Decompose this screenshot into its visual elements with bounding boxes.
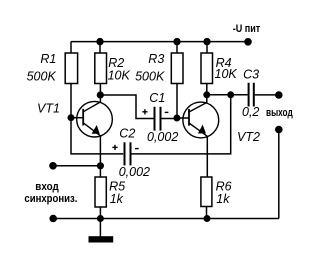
C1 minus sign: [165, 111, 169, 113]
svg-text:1k: 1k: [110, 192, 124, 206]
wire R2 bottom lead: [99, 84, 101, 96]
svg-text:C1: C1: [149, 91, 165, 105]
node: sync input top terminal: [49, 162, 57, 170]
svg-text:синхрониз.: синхрониз.: [24, 193, 77, 205]
wire R3 top lead: [176, 42, 178, 53]
C2 plus sign: [112, 145, 117, 150]
wire VT1 emitter lead: [99, 136, 101, 166]
wire VT1 collector to C1 left: [100, 95, 153, 119]
wire ground stub: [99, 219, 101, 237]
wire VT2 emitter lead: [206, 136, 208, 177]
C1 plus sign: [142, 109, 147, 114]
resistor R6: [201, 177, 212, 207]
svg-text:0,002: 0,002: [119, 165, 150, 179]
wire R4 top lead: [206, 42, 208, 53]
wire VT2 collector lead: [206, 95, 208, 103]
capacitor C1: [155, 107, 161, 131]
node: VT1 collector: [97, 91, 104, 98]
svg-text:R1: R1: [40, 52, 56, 66]
wire R1 bottom to VT1 base and C2 left: [71, 84, 123, 154]
svg-text:-U пит: -U пит: [233, 23, 261, 35]
svg-text:R3: R3: [148, 52, 164, 66]
svg-text:10K: 10K: [108, 69, 131, 83]
svg-text:VT1: VT1: [37, 102, 60, 116]
node: VT2 base: [173, 115, 180, 122]
node: -U power terminal: [244, 38, 252, 46]
svg-text:0,002: 0,002: [147, 130, 178, 144]
svg-text:1k: 1k: [216, 192, 230, 206]
wire R3 bottom lead: [176, 84, 178, 119]
wire R1 top lead: [70, 42, 72, 53]
wire sync input top: [53, 165, 100, 167]
transistor VT2: [183, 102, 219, 138]
wire R2 top lead: [99, 42, 101, 53]
node: rail-R5 junction: [97, 215, 104, 222]
capacitor C2: [125, 142, 131, 165]
C2 minus sign: [135, 148, 139, 150]
node: rail-R3 junction: [173, 38, 180, 45]
svg-text:вход: вход: [35, 181, 58, 193]
wire bottom rail: [53, 218, 279, 220]
resistor R3: [171, 53, 183, 84]
wire VT2 collector node to C3 left: [207, 94, 248, 96]
node: rail-R6 junction: [204, 215, 211, 222]
resistor R1: [65, 53, 77, 84]
svg-text:0,2: 0,2: [242, 105, 259, 119]
node: VT2 collector: [203, 91, 210, 98]
wire R5 top lead: [99, 166, 101, 177]
svg-text:C3: C3: [243, 68, 259, 82]
node: VT1 base: [68, 114, 75, 121]
svg-text:VT2: VT2: [237, 130, 260, 144]
node: rail-R2 junction: [96, 38, 103, 45]
wire C2 right up to VT2 collector node: [131, 95, 230, 154]
node: output bottom terminal: [275, 126, 283, 134]
resistor R4: [201, 53, 213, 84]
node: sync input bottom terminal: [49, 215, 57, 223]
wire top rail: [71, 41, 248, 43]
node: output top terminal: [275, 91, 283, 99]
wire R6 bottom lead: [206, 207, 208, 219]
resistor R5: [95, 177, 106, 207]
wire VT1 base lead: [71, 117, 83, 119]
transistor VT1: [77, 101, 113, 137]
wire VT2 base lead: [177, 117, 189, 119]
svg-text:10K: 10K: [215, 67, 238, 81]
wire C1 right to VT2 base: [162, 118, 178, 120]
node: rail-R4 junction: [203, 38, 210, 45]
wire output bottom to rail: [278, 130, 280, 219]
resistor R2: [95, 53, 107, 84]
capacitor C3: [249, 83, 254, 107]
wire R5 bottom lead: [99, 207, 101, 219]
wire VT1 collector lead: [99, 95, 101, 103]
node: C2-C3 tap junction: [227, 91, 234, 98]
ground: [89, 236, 114, 242]
node: VT1 emitter junction: [97, 162, 104, 169]
svg-text:выход: выход: [266, 107, 293, 119]
svg-text:C2: C2: [119, 126, 135, 140]
svg-text:500K: 500K: [135, 70, 165, 84]
svg-text:500K: 500K: [27, 70, 57, 84]
wire C3 right to output terminal: [255, 94, 279, 96]
wire R4 bottom lead: [206, 84, 208, 95]
